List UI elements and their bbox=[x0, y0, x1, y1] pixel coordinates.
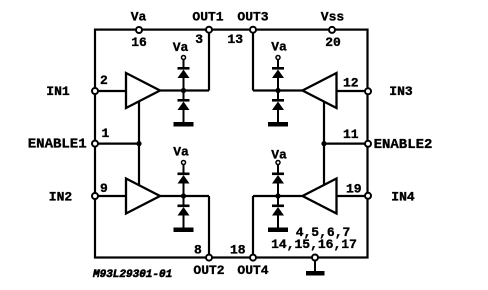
ground stack3 bbox=[268, 122, 288, 127]
Va terminal circle stack4 bbox=[276, 161, 280, 165]
wire ENABLE1 pin1 to junction bbox=[95, 143, 139, 145]
svg-text:8: 8 bbox=[194, 243, 202, 258]
svg-text:IN3: IN3 bbox=[389, 84, 413, 99]
wire IN3 pin12 to buffer3 input bbox=[336, 90, 368, 92]
Va terminal circle stack2 bbox=[182, 161, 186, 165]
junction node OUT2 bbox=[181, 193, 186, 198]
diode D7 bbox=[272, 173, 284, 176]
wire OUT1 vertical pin3 to node bbox=[208, 30, 210, 91]
buffer amplifier U3 (IN3) bbox=[303, 73, 337, 108]
pin 1 circle (ENABLE1) bbox=[92, 141, 98, 147]
Va terminal circle stack3 bbox=[276, 56, 280, 60]
svg-text:IN2: IN2 bbox=[49, 190, 73, 205]
wire node to diode D6 bbox=[277, 91, 279, 100]
pin number 8 bbox=[194, 243, 202, 258]
pin number 16 bbox=[131, 35, 147, 50]
pin 19 circle (IN4) bbox=[365, 193, 371, 199]
Va terminal circle stack1 bbox=[182, 56, 186, 60]
svg-text:16: 16 bbox=[131, 35, 147, 50]
pin number 18 bbox=[230, 243, 246, 258]
junction node OUT4 bbox=[275, 193, 280, 198]
buffer amplifier U4 (IN4) bbox=[303, 179, 337, 214]
label IN1 bbox=[46, 84, 70, 99]
wire Va to diode D1 bbox=[183, 60, 185, 68]
label IN4 bbox=[391, 190, 415, 205]
svg-text:Va: Va bbox=[173, 40, 189, 55]
wire D1 to node bbox=[183, 77, 185, 91]
wire OUT3 to buffer3 output bbox=[253, 89, 303, 91]
clamp diode stack 1 (OUT1 node) bbox=[174, 56, 194, 127]
buffer amplifier U2 (IN2) bbox=[126, 179, 160, 214]
svg-text:20: 20 bbox=[325, 35, 341, 50]
svg-text:OUT1: OUT1 bbox=[192, 10, 223, 25]
label OUT4 bbox=[237, 263, 268, 278]
diode D6 bbox=[272, 99, 284, 102]
wire D3 to node bbox=[183, 183, 185, 197]
svg-text:IN1: IN1 bbox=[46, 84, 70, 99]
label ground pins 14,15,16,17 bbox=[271, 237, 357, 252]
wire Va to diode D5 bbox=[277, 60, 279, 68]
svg-text:1: 1 bbox=[102, 126, 110, 141]
junction node ENABLE1 bbox=[136, 141, 141, 146]
clamp diode stack 4 (OUT4 node) bbox=[268, 161, 288, 233]
pin number 2 bbox=[100, 73, 108, 88]
label IN2 bbox=[49, 190, 73, 205]
svg-text:14,15,16,17: 14,15,16,17 bbox=[271, 237, 357, 252]
svg-text:11: 11 bbox=[343, 127, 359, 142]
diode D1 bbox=[178, 67, 190, 70]
label Va pin16 bbox=[131, 10, 147, 25]
wire IN1 pin2 to buffer1 input bbox=[95, 90, 127, 92]
svg-text:Va: Va bbox=[271, 148, 287, 163]
pin number 9 bbox=[100, 181, 108, 196]
figure number M93L29301-01 bbox=[92, 269, 172, 281]
pin 12 circle (IN3) bbox=[365, 88, 371, 94]
pin number 1 bbox=[102, 126, 110, 141]
svg-text:Va: Va bbox=[131, 10, 147, 25]
label OUT3 bbox=[237, 10, 268, 25]
pin number 20 bbox=[325, 35, 341, 50]
svg-text:Vss: Vss bbox=[321, 10, 345, 25]
pin 3 circle (OUT1) bbox=[206, 27, 212, 33]
wire IN2 pin9 to buffer2 input bbox=[95, 195, 127, 197]
wire ENABLE2 junction up to buffer3 enable bbox=[323, 102, 325, 144]
label IN3 bbox=[389, 84, 413, 99]
wire D7 to node bbox=[277, 183, 279, 197]
pin 20 circle (Vss) bbox=[329, 27, 335, 33]
wire ENABLE1 junction up to buffer1 enable bbox=[138, 101, 140, 144]
pin 9 circle (IN2) bbox=[92, 193, 98, 199]
label Va stack4 bbox=[271, 148, 287, 163]
svg-text:ENABLE1: ENABLE1 bbox=[28, 137, 87, 153]
diode D3 bbox=[178, 173, 190, 176]
label OUT2 bbox=[193, 263, 224, 278]
label OUT1 bbox=[192, 10, 223, 25]
wire D2 to ground bbox=[183, 109, 185, 123]
label Vss bbox=[321, 10, 345, 25]
label ENABLE1 bbox=[28, 137, 87, 153]
wire D8 to ground bbox=[277, 215, 279, 229]
wire OUT4 to buffer4 output bbox=[253, 195, 303, 197]
label Va stack2 bbox=[173, 145, 189, 160]
label ENABLE2 bbox=[374, 137, 433, 153]
wire node to diode D2 bbox=[183, 91, 185, 100]
wire node to diode D4 bbox=[183, 196, 185, 205]
svg-text:9: 9 bbox=[100, 181, 108, 196]
wire IN4 pin19 to buffer4 input bbox=[336, 195, 368, 197]
junction node OUT1 bbox=[181, 88, 186, 93]
wire buffer2 output to OUT2 bbox=[159, 195, 209, 197]
ground pin circle (pins 4-7,14-17) bbox=[312, 255, 318, 261]
wire OUT3 vertical pin13 to node bbox=[252, 30, 254, 91]
svg-text:IN4: IN4 bbox=[391, 190, 415, 205]
wire OUT2 vertical node to pin8 bbox=[208, 196, 210, 258]
svg-text:18: 18 bbox=[230, 243, 246, 258]
diode D4 bbox=[178, 205, 190, 208]
pin number 11 bbox=[343, 127, 359, 142]
svg-text:OUT2: OUT2 bbox=[193, 263, 224, 278]
pin 2 circle (IN1) bbox=[92, 88, 98, 94]
pin number 19 bbox=[346, 182, 362, 197]
svg-text:2: 2 bbox=[100, 73, 108, 88]
ground stack1 bbox=[174, 122, 194, 127]
label ground pins 4,5,6,7 bbox=[296, 225, 351, 240]
svg-text:19: 19 bbox=[346, 182, 362, 197]
buffer amplifier U1 (IN1) bbox=[126, 73, 160, 108]
clamp diode stack 3 (OUT3 node) bbox=[268, 56, 288, 127]
pin 16 circle (Va) bbox=[136, 27, 142, 33]
wire D5 to node bbox=[277, 77, 279, 91]
diode D5 bbox=[272, 67, 284, 70]
pin number 3 bbox=[195, 32, 203, 47]
pin number 13 bbox=[227, 32, 243, 47]
pin 8 circle (OUT2) bbox=[206, 255, 212, 261]
ground stack2 bbox=[174, 228, 194, 233]
wire ENABLE2 junction down to buffer4 enable bbox=[323, 144, 325, 185]
svg-text:3: 3 bbox=[195, 32, 203, 47]
ground stack4 bbox=[268, 228, 288, 233]
wire Va to diode D7 bbox=[277, 165, 279, 174]
svg-text:M93L29301-01: M93L29301-01 bbox=[92, 269, 172, 281]
junction node OUT3 bbox=[275, 88, 280, 93]
diode D2 bbox=[178, 99, 190, 102]
label Va stack3 bbox=[271, 40, 287, 55]
ground symbol bottom bbox=[306, 261, 325, 276]
wire D6 to ground bbox=[277, 109, 279, 123]
package outline bbox=[95, 30, 368, 258]
diode D8 bbox=[272, 205, 284, 208]
pin 18 circle (OUT4) bbox=[250, 255, 256, 261]
svg-text:Va: Va bbox=[173, 145, 189, 160]
clamp diode stack 2 (OUT2 node) bbox=[174, 161, 194, 233]
wire buffer1 output to OUT1 bbox=[159, 89, 209, 91]
svg-text:12: 12 bbox=[343, 76, 359, 91]
junction node ENABLE2 bbox=[321, 141, 326, 146]
svg-text:Va: Va bbox=[271, 40, 287, 55]
wire ENABLE2 pin11 to junction bbox=[324, 143, 368, 145]
svg-text:OUT4: OUT4 bbox=[237, 263, 268, 278]
wire Va to diode D3 bbox=[183, 165, 185, 174]
svg-text:ENABLE2: ENABLE2 bbox=[374, 137, 433, 153]
pin 13 circle (OUT3) bbox=[250, 27, 256, 33]
wire ENABLE1 junction down to buffer2 enable bbox=[138, 144, 140, 186]
svg-text:13: 13 bbox=[227, 32, 243, 47]
wire node to diode D8 bbox=[277, 196, 279, 205]
wire D4 to ground bbox=[183, 215, 185, 229]
wire OUT4 vertical node to pin18 bbox=[252, 196, 254, 258]
svg-text:OUT3: OUT3 bbox=[237, 10, 268, 25]
label Va stack1 bbox=[173, 40, 189, 55]
pin number 12 bbox=[343, 76, 359, 91]
pin 11 circle (ENABLE2) bbox=[365, 141, 371, 147]
